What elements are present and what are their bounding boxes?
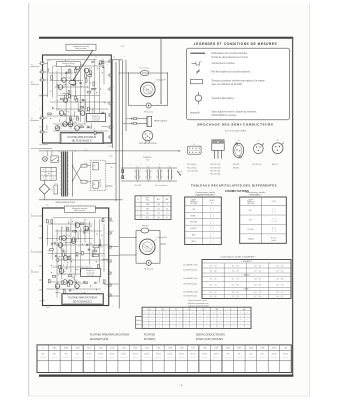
svg-text:T.311: T.311 [284,348,288,350]
svg-text:S.307: S.307 [237,348,241,350]
stub wires to board 2 [119,237,136,239]
wire: G rail h0 [53,217,109,219]
svg-text:BC: BC [80,67,82,69]
svg-text:BC 109: BC 109 [179,354,184,356]
transistor T.134 (D) [58,85,63,90]
svg-text:3 → 4: 3 → 4 [210,227,214,229]
svg-text:100/401-500: 100/401-500 [74,357,81,359]
wire: D rail v11 [99,66,101,114]
resistor R.229 (G) [48,279,50,283]
wire selector to bus 1 [106,163,116,165]
wire loop speaker 2 bottom [136,262,146,264]
svg-text:S.310: S.310 [272,348,276,350]
left margin wire 5 [31,251,40,253]
board outline: platine amplificateur de puissance D [43,55,112,143]
svg-text:G: G [227,312,228,314]
capacitor C.240 (G) [99,243,101,245]
svg-text:6 → 5: 6 → 5 [210,229,214,231]
svg-text:T.132: T.132 [67,78,70,80]
transistor T.140 (G) [55,284,60,289]
svg-text:PLATINE AMPLIFICATEUR: PLATINE AMPLIFICATEUR [68,297,97,300]
junction (G14) [95,288,98,291]
svg-text:G: G [240,312,241,314]
svg-text:SELECTEUR: SELECTEUR [100,179,102,187]
svg-text:BC: BC [60,128,62,130]
svg-text:R.239: R.239 [40,115,44,117]
wire: D rail v8 [84,68,86,125]
filter rail bottom [121,180,177,182]
svg-text:8 → 7: 8 → 7 [210,223,214,225]
junction (D9) [86,86,89,89]
svg-text:C.244: C.244 [94,61,97,63]
svg-text:BC 413: BC 413 [110,354,115,356]
svg-text:C.244: C.244 [105,62,109,64]
resistor R.221 (G) [46,219,48,223]
svg-text:Touche: Touche [191,199,196,201]
wire stub D11 [84,101,86,109]
svg-text:70,1 → 270: 70,1 → 270 [232,296,239,298]
svg-text:BROCHAGE DES SEMI-CONDUCTEUR: BROCHAGE DES SEMI-CONDUCTEURS [197,123,273,127]
svg-text:S.306: S.306 [226,348,230,350]
resistor R.226 (D) [93,82,95,86]
grid table commutateurs [142,307,251,328]
svg-text:8vP: 8vP [261,354,263,356]
svg-text:100/401-500: 100/401-500 [190,357,197,359]
svg-text:POT: POT [146,197,149,199]
svg-text:100/401-500: 100/401-500 [213,357,220,359]
resistor R.232 (D) [70,117,72,121]
svg-text:100/401-500: 100/401-500 [236,357,243,359]
grid left label block [136,316,142,328]
svg-text:T.131: T.131 [89,226,92,228]
svg-text:R.258: R.258 [99,247,103,249]
svg-text:Voie G: Voie G [46,307,50,309]
capacitor C.240 (D) [79,82,81,84]
svg-text:1 → 2: 1 → 2 [210,240,214,242]
arrow vers commutateurs [177,171,181,176]
svg-text:C.241: C.241 [71,290,74,292]
svg-text:BC 109: BC 109 [214,354,219,356]
board outline: platine amplificateur de puissance G [43,208,109,306]
svg-text:BC: BC [73,283,75,285]
svg-text:C.248: C.248 [80,110,83,112]
wire loop speaker 1 top-right [149,72,168,74]
resistor Rh0 (D) [61,98,64,100]
diode D0 (G) [51,243,53,245]
svg-text:T.136: T.136 [64,269,67,271]
svg-text:1 → 2: 1 → 2 [210,221,214,223]
resistor R.234 (G) [57,258,59,262]
junction (D2) [96,67,99,70]
svg-text:T.107: T.107 [157,348,161,350]
junction (D7) [83,99,86,102]
junction (G8) [83,291,86,294]
wire: G rail v5 [70,219,72,273]
svg-text:C.21: C.21 [103,269,106,271]
junction (G18) [61,227,64,230]
capacitor C.241 (D) [75,63,77,65]
filter capacitor 2 [146,169,148,179]
junction (D21) [67,110,70,113]
svg-text:100/401-500: 100/401-500 [51,357,58,359]
svg-text:LECTURE: LECTURE [247,203,254,205]
svg-text:G: G [186,312,187,314]
junction (D12) [73,80,76,83]
svg-text:BC 148 (a): BC 148 (a) [188,164,197,166]
wire: D rail v2 [56,71,58,111]
svg-text:Vers les: Vers les [178,171,183,173]
svg-text:BD 138 (13): BD 138 (13) [211,167,221,169]
input stub wire 4 board1 [39,117,48,119]
wire selector to bus 2 [106,185,113,187]
svg-text:T.136: T.136 [64,111,67,113]
wire stub G0 [102,258,109,260]
wire stub D3 [69,131,73,133]
svg-text:AUTO/AFER en service.: AUTO/AFER en service. [212,114,238,117]
junction (G17) [76,287,79,290]
svg-text:100/401-500: 100/401-500 [39,357,46,359]
winding tick 185 [60,184,62,186]
svg-text:Fus. (secours): Fus. (secours) [140,68,149,70]
svg-text:BC: BC [80,225,82,227]
svg-text:3 → 4: 3 → 4 [210,214,214,216]
svg-text:P42: P42 [249,220,252,222]
wire: D rail h4 [55,86,89,88]
capacitor C.248 (G) [55,254,57,256]
mains entry wires [39,148,52,150]
filter capacitor 4 [168,169,170,179]
svg-text:G: G [31,214,32,216]
svg-text:C.240: C.240 [101,244,104,246]
board 2 name box [62,294,104,305]
svg-text:G: G [213,312,214,314]
board pad G3 [109,260,111,262]
label box: reglage de la tension totale G [81,269,101,277]
transistor T.130 (G) [75,223,80,228]
junction (D6) [76,117,79,120]
resistor R.236 (D) [70,121,72,125]
svg-text:100/401-500: 100/401-500 [143,357,150,359]
svg-text:TE: TE [31,270,33,272]
junction (G7) [71,220,74,223]
svg-text:21: 21 [95,57,97,59]
svg-text:8vP: 8vP [76,354,78,356]
junction (G4) [59,255,62,258]
input stub wire 4 board2 [39,265,43,267]
svg-text:100/401-500: 100/401-500 [63,357,70,359]
svg-text:T.139: T.139 [80,284,83,286]
resistor R.233 (G) [76,253,78,257]
diode D3 (D) [57,84,59,86]
legend item 4 symbol (rect) [191,79,203,83]
svg-text:3 → 2: 3 → 2 [210,208,214,210]
input stub wire 0 board1 [39,63,48,65]
resistor R.225 (G) [73,238,75,242]
svg-text:MAGNETIQUE: MAGNETIQUE [90,337,109,341]
resistor Rh1 (G) [73,230,77,232]
transistor T.137 (G) [63,280,68,285]
svg-text:BC 109: BC 109 [202,354,207,356]
wire stub G14 [60,248,64,250]
svg-text:70,1 → 270: 70,1 → 270 [254,292,261,294]
resistor R.231 (G) [68,283,70,287]
svg-text:2,05 → 70,7: 2,05 → 70,7 [276,296,284,298]
svg-text:« TE MAGN »: « TE MAGN » [241,260,252,263]
svg-text:100/401-500: 100/401-500 [120,357,127,359]
svg-text:R.250: R.250 [121,46,125,48]
wire stub D5 [77,103,79,111]
casque plug 1 [132,118,147,120]
svg-text:0,6v: 0,6v [61,115,64,117]
capacitor C.246 (G) [94,281,96,283]
svg-text:0v65: 0v65 [78,133,81,135]
svg-text:T.105: T.105 [133,348,137,350]
svg-text:100/401-500: 100/401-500 [167,357,174,359]
fuse HP 1 [141,70,149,75]
label box: reglage inside board 1 [56,62,80,67]
legend box [187,48,290,120]
wire: G rail v0 [47,225,49,246]
wire stub G4 [77,232,79,239]
resistor R.226 (G) [84,226,86,230]
capacitor C.246 (D) [102,111,104,113]
winding tick 153 [60,152,62,154]
svg-text:T.104: T.104 [122,348,126,350]
svg-text:T.103: T.103 [110,348,114,350]
svg-text:S.284: S.284 [64,348,68,350]
svg-text:BC 413: BC 413 [156,354,161,356]
resistor Rh4 (G) [52,276,56,278]
wire stub G12 [103,282,106,284]
wire stub D9 [74,111,76,117]
svg-text:4 → 3: 4 → 3 [272,230,276,232]
resistor R.259 [93,254,98,256]
resistor R.232 [41,71,44,73]
svg-text:V.G: V.G [137,319,139,321]
svg-text:Commutateurs rotatifs: Commutateurs rotatifs [245,191,265,194]
svg-text:RD 345: RD 345 [233,164,239,166]
wire stub D15 [58,119,60,122]
winding tick 157 [60,156,62,158]
svg-text:47n: 47n [75,90,77,92]
input stub wire 5 board1 [39,131,48,133]
resistor Rh5 (D) [88,75,92,77]
svg-text:1,2v: 1,2v [79,99,82,101]
resistor Rh1 (D) [80,126,84,128]
transistor T.136 (D) [59,111,64,116]
wire: D rail h8 [47,115,78,117]
mid measurement table [135,196,171,220]
svg-text:D: D [247,312,248,314]
svg-text:100/401-500: 100/401-500 [224,357,231,359]
board pad D4 [109,114,111,116]
svg-text:BC: BC [89,229,91,231]
svg-text:6,3v: 6,3v [46,205,49,207]
resistor R.234 (D) [88,107,90,111]
svg-text:COTE SOUDURES: COTE SOUDURES [225,130,247,132]
package TO-39 [253,144,263,154]
svg-text:70,7 → 70,1: 70,7 → 70,1 [254,270,262,272]
svg-text:50N: 50N [146,208,149,210]
svg-text:T.133: T.133 [76,81,79,83]
wire: D rail v12 [103,66,105,85]
svg-text:C.246: C.246 [108,146,112,148]
svg-text:G: G [199,312,200,314]
resistor R.228 (G) [60,236,62,240]
svg-text:T.136: T.136 [203,348,207,350]
HP secours jack 2 [146,260,151,265]
wire board2 to bus 2 [109,255,119,257]
wire board2 pad to bus y284 [109,283,120,285]
svg-text:1,2v: 1,2v [69,94,72,96]
svg-text:240: 240 [93,184,95,186]
selector 240V block [93,181,98,189]
wire: G rail v9 [89,221,91,265]
wire: D rail h5 [58,94,100,96]
svg-text:DE PUISSANCE D: DE PUISSANCE D [72,140,92,143]
wire stub D2 [69,117,71,122]
transistor T.133 (D) [71,81,76,86]
capacitor C.243 (G) [86,243,88,245]
svg-text:BC 149 (2 b): BC 149 (2 b) [188,171,199,173]
svg-text:6 → 7: 6 → 7 [210,236,214,238]
board 1 name box [60,133,103,144]
wire stub D6 [46,125,48,130]
TO126 leg 1 [217,150,219,158]
svg-text:50 Hz: 50 Hz [146,160,150,162]
junction (G20) [48,249,51,252]
filter capacitor 1 [135,169,137,179]
wire board2 to bus 1 [109,246,119,248]
resistor R.230 (G) [61,281,63,285]
transistor T.138 (G) [68,280,73,285]
svg-text:BC 413: BC 413 [121,354,126,356]
transistor T.132 (D) [62,78,67,83]
svg-text:PU: PU [31,64,33,66]
svg-text:70,7 → 70,1: 70,7 → 70,1 [254,296,262,298]
input stub wire 6 board2 [39,289,43,291]
resistor R.222 (G) [103,280,105,284]
svg-text:BC: BC [80,128,82,130]
svg-text:T.110: T.110 [191,348,195,350]
svg-text:T.109: T.109 [180,348,184,350]
svg-text:LEGENDES ET CONDITIONS DE: LEGENDES ET CONDITIONS DE MESURES [194,42,278,46]
svg-text:1x5: 1x5 [157,208,159,210]
transistor T.141 (G) [80,269,85,274]
transistor T.133 (G) [71,239,76,244]
board pad G4 [109,272,111,274]
wire: G rail v12 [103,224,105,272]
svg-text:Réglage de la: Réglage de la [92,115,101,117]
junction (D11) [49,90,52,93]
selector 220V block [93,162,98,170]
svg-text:0,6v: 0,6v [70,269,73,271]
resistor R.231 (D) [85,79,87,83]
wire stub D10 [47,69,49,73]
bus vertical 2 [115,62,117,201]
svg-text:C.245: C.245 [72,119,75,121]
svg-text:22k: 22k [47,69,49,71]
svg-text:RD 365: RD 365 [233,167,239,169]
svg-text:BC 413: BC 413 [133,354,138,356]
pointer line from label to trimmer [73,50,93,81]
label box: reglage du courant de repos [66,44,96,50]
wire stub G8 [90,285,92,288]
svg-text:Connecteurs et fiches.: Connecteurs et fiches. [212,62,236,65]
wire: G rail h1 [48,223,92,225]
wire: G rail h10 [46,288,100,290]
wire loop speaker 1 right [167,73,169,106]
capacitor C.243 (D) [65,72,67,74]
svg-text:Mauvaise: Mauvaise [271,237,277,239]
svg-text:G: G [40,97,41,99]
transistor T.130 (D) [75,65,80,70]
svg-text:4U5: 4U5 [146,213,149,215]
input stub wire 0 board2 [39,215,43,217]
legend item 1 symbol (thick line) [191,52,206,54]
junction (G13) [97,271,100,274]
svg-text:0v65: 0v65 [65,244,68,246]
input stub wire 5 board2 [39,279,43,281]
wire stub D14 [96,113,98,115]
resistor Rh5 (G) [93,250,97,252]
bus vertical 4 [122,60,124,176]
wire stub G6 [74,275,76,280]
svg-text:100µ: 100µ [76,291,79,293]
svg-text:Tensions relevées sur les: Tensions relevées sur les [188,299,207,302]
bottom border rule [39,375,293,377]
junction (D0) [89,81,92,84]
top border rule [39,37,293,39]
junction (D17) [93,128,96,131]
svg-text:6 → 5: 6 → 5 [210,216,214,218]
svg-text:C.246: C.246 [97,282,100,284]
svg-text:2,05 → 70,7: 2,05 → 70,7 [254,279,262,281]
capacitor C.247 (D) [82,98,84,100]
board pad G6 [109,294,111,296]
junction (G19) [101,234,104,237]
package TO-3 [233,143,244,157]
svg-text:100/401-500: 100/401-500 [248,357,255,359]
capacitor C.241 (G) [69,289,71,291]
bus vertical 1 [112,60,114,148]
svg-text:G: G [145,312,146,314]
wire stub D0 [92,108,94,115]
table entrees [240,197,287,243]
svg-text:BD 139 (15): BD 139 (15) [211,171,221,173]
resistor R.221 (D) [58,63,60,67]
svg-text:C.242: C.242 [77,282,80,284]
svg-text:PLATINE AMPLIFICATEUR: PLATINE AMPLIFICATEUR [67,136,96,139]
resistor Rh3 (G) [68,275,72,277]
junction (D8) [70,79,73,82]
wire stub G13 [67,221,69,224]
wire: D rail h6 [50,101,109,103]
wire: D rail h1 [53,65,104,67]
svg-text:BC: BC [80,286,82,288]
svg-text:70,7 → 70,1: 70,7 → 70,1 [276,265,284,267]
wire stub D1 [58,108,60,110]
wire loop speaker 2 right [159,231,161,264]
wire loop speaker 2 left [135,231,137,264]
svg-text:C.228: C.228 [40,61,44,63]
svg-text:C.244: C.244 [90,249,93,251]
svg-text:D: D [152,312,153,314]
svg-text:70,7 → 70,1: 70,7 → 70,1 [276,292,284,294]
svg-text:8vP: 8vP [65,354,67,356]
legend item 3 symbol (slash) [197,70,200,74]
wire: D rail v10 [94,59,96,121]
